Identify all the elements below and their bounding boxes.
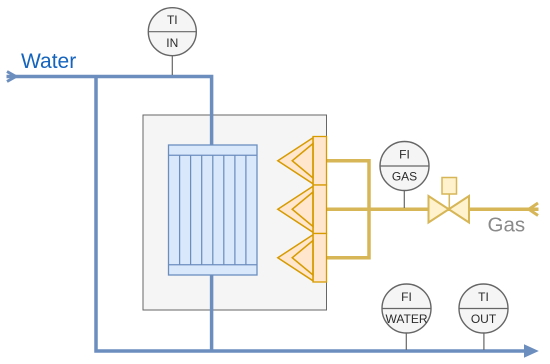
svg-text:Gas: Gas: [488, 214, 526, 237]
svg-text:FI: FI: [399, 147, 410, 161]
svg-text:GAS: GAS: [392, 170, 417, 184]
svg-text:FI: FI: [401, 290, 412, 304]
svg-text:WATER: WATER: [386, 312, 428, 326]
svg-text:TI: TI: [167, 13, 178, 27]
svg-text:IN: IN: [166, 36, 178, 50]
svg-text:OUT: OUT: [471, 312, 497, 326]
svg-text:Water: Water: [21, 50, 76, 73]
svg-text:TI: TI: [478, 290, 489, 304]
